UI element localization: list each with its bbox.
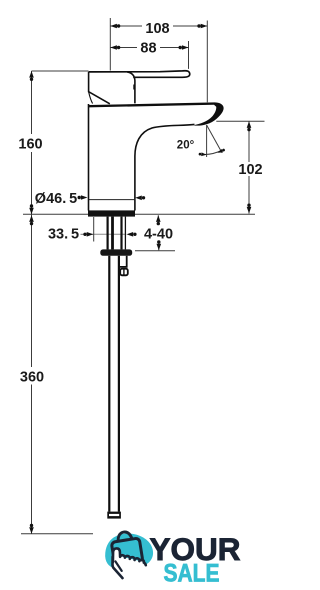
body left edge lower — [88, 104, 90, 211]
handle body left edge — [89, 72, 110, 104]
deck line — [23, 213, 255, 215]
pull rod — [111, 217, 114, 250]
arrow angle left — [198, 152, 206, 156]
spout deck band with tip beak — [89, 102, 224, 125]
logo hand white underlay — [113, 549, 146, 577]
arrow 33.5 right — [127, 232, 137, 237]
arrow 160 top — [29, 71, 34, 81]
handle lever outline — [89, 71, 190, 78]
handle body inner curve — [89, 92, 93, 104]
dim line 88 — [110, 47, 137, 49]
pipe upper left wall — [106, 217, 108, 250]
base bottom thick band — [88, 210, 135, 216]
clamp screw — [120, 269, 128, 276]
svg-text:20°: 20° — [177, 140, 195, 152]
tube end below flange — [120, 256, 127, 267]
ref line bottom 360 — [21, 533, 93, 535]
4-40 up leg — [157, 215, 159, 224]
arrow 102 top — [247, 121, 252, 131]
shank tube right wall — [124, 217, 126, 250]
logo hand finger and knuckles — [113, 548, 146, 565]
ext line right 108 — [206, 21, 208, 103]
svg-text:88: 88 — [140, 41, 156, 57]
dim line 160 — [31, 71, 33, 134]
logo hand wrist inner stroke — [115, 561, 121, 571]
ref line 4-40 bottom — [135, 250, 175, 252]
arrow 160 bottom — [29, 204, 34, 214]
svg-text:102: 102 — [238, 162, 262, 178]
dim line 360 — [31, 214, 33, 367]
arrow 4-40 up — [156, 215, 161, 225]
pipe end cap — [107, 512, 121, 519]
svg-text:Ø46. 5: Ø46. 5 — [35, 191, 77, 207]
angle vertical ray — [206, 125, 208, 157]
ref line top 160 — [32, 70, 89, 72]
arrow 102 bottom — [247, 204, 252, 214]
dim line 33.5 — [81, 233, 94, 235]
dim line 108 — [110, 25, 142, 27]
ref line top 102 — [216, 120, 264, 122]
arrow angle right — [217, 148, 226, 155]
svg-text:160: 160 — [18, 136, 42, 152]
arrow 88 left — [110, 45, 120, 50]
arrow 33.5 left — [83, 232, 93, 237]
flange — [100, 249, 132, 255]
arrow 360 bottom — [29, 524, 34, 534]
logo bag with handle — [110, 530, 143, 566]
4-40 down leg — [158, 242, 160, 250]
handle shoulder and body right edge — [127, 72, 135, 104]
angle slanted ray — [207, 125, 222, 153]
arrow 108 left — [110, 24, 120, 29]
svg-text:108: 108 — [145, 21, 169, 37]
base right edge — [134, 199, 136, 210]
arrow 108 right — [197, 24, 207, 29]
spout underside curve — [135, 124, 195, 199]
logo blob — [105, 534, 153, 569]
svg-text:33. 5: 33. 5 — [48, 227, 79, 243]
shank tube left wall — [120, 217, 122, 250]
line across body at 46.5 — [89, 199, 135, 201]
angle arc — [202, 150, 223, 155]
svg-text:360: 360 — [20, 369, 44, 385]
arrow dia46 right — [135, 196, 145, 201]
arrow 360 top — [29, 215, 34, 225]
arrow 4-40 down — [157, 240, 162, 250]
logo hand wrist outer stroke — [113, 557, 123, 578]
dim line 102 — [248, 121, 250, 162]
pipe right wall — [118, 256, 120, 512]
ext line left (108/88) — [109, 18, 111, 71]
pipe left wall — [108, 256, 110, 512]
svg-text:4-40: 4-40 — [144, 227, 173, 243]
ext line 33.5 left — [93, 217, 95, 242]
clamp screw divider — [123, 269, 125, 276]
handle indicator tick — [133, 85, 135, 90]
arrow dia46 left — [78, 195, 88, 200]
svg-text:SALE: SALE — [164, 559, 220, 587]
arrow 88 right — [179, 45, 189, 50]
ext line right 88 — [188, 41, 190, 69]
